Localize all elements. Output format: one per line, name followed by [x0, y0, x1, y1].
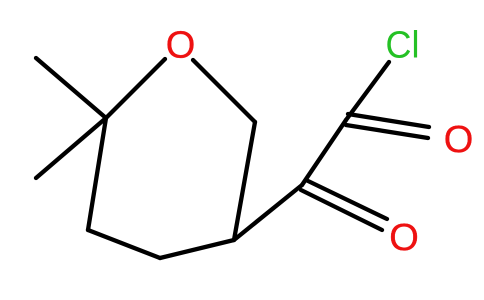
wire C4-C5 ring bond: [88, 230, 160, 258]
wire C6-methyl down: [36, 118, 106, 178]
svg-text:Cl: Cl: [386, 25, 420, 67]
wire Cb=Ob double bond: [306, 180, 387, 219]
svg-text:O: O: [389, 217, 419, 259]
svg-text:O: O: [166, 25, 196, 67]
wire C6-methyl up: [36, 58, 106, 118]
wire Ca=Oa double bond: [348, 114, 429, 127]
wire Ca-Cl bond: [346, 62, 389, 120]
wire C3-Cb bond: [234, 185, 302, 240]
svg-text:O: O: [444, 119, 474, 161]
wire O1-C6 ring bond: [106, 59, 165, 118]
wire O1-C2 ring bond: [193, 60, 255, 122]
wire Cb-Ca bond: [302, 120, 346, 185]
wire C5-C6 ring bond: [88, 118, 106, 230]
wire C3-C4 ring bond: [160, 240, 234, 258]
wire C2-C3 ring bond: [234, 122, 255, 240]
